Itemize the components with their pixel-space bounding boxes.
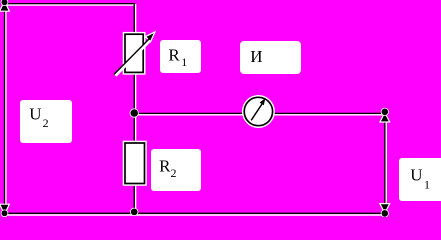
wire white remnant stripes (shadows) — [6, 1, 386, 215]
svg-text:2: 2 — [43, 116, 49, 130]
wire: right vertical (U1 measure arrow shaft) — [384, 112, 386, 213]
arrowhead down, left bottom — [1, 205, 9, 213]
node dot, bottom junction — [131, 209, 138, 216]
wire: branch vertical bottom (R2 to bottom wire) — [133, 183, 135, 213]
node dot, left bottom corner — [2, 210, 8, 216]
wire: top horizontal — [4, 3, 135, 5]
svg-text:R: R — [168, 45, 180, 64]
wire: branch vertical middle (R1 to R2) — [133, 72, 135, 143]
wire: middle horizontal right of meter — [272, 112, 382, 114]
node dot, left top corner — [2, 0, 8, 5]
svg-text:И: И — [250, 47, 262, 66]
node dot, middle junction — [130, 109, 138, 117]
label box И — [240, 41, 301, 74]
wire: bottom horizontal — [4, 212, 385, 214]
svg-text:U: U — [410, 165, 422, 184]
arrowhead up, right top — [381, 114, 389, 122]
label box R1 — [160, 40, 201, 73]
R1 variable arrow (diagonal) — [114, 33, 154, 75]
svg-text:R: R — [159, 156, 171, 175]
svg-text:1: 1 — [424, 177, 430, 191]
resistor R2 body — [125, 143, 145, 184]
svg-text:U: U — [29, 105, 41, 124]
arrowhead down, right bottom — [381, 204, 389, 212]
meter (galvanometer) circle — [244, 97, 272, 125]
wire: branch vertical top (to R1) — [133, 3, 135, 34]
label box U1 — [399, 158, 441, 201]
svg-text:2: 2 — [171, 166, 177, 180]
resistor R1 (variable) body — [125, 34, 143, 72]
svg-text:1: 1 — [181, 55, 187, 69]
arrowhead up, left top — [1, 2, 9, 10]
label box U2 — [20, 100, 72, 143]
wire: middle horizontal left of meter — [134, 112, 245, 114]
wire: left vertical (U2 measure arrow shaft) — [4, 0, 6, 213]
node dot, right top — [382, 109, 389, 116]
label box R2 — [151, 149, 201, 191]
node dot, right bottom — [382, 210, 389, 217]
